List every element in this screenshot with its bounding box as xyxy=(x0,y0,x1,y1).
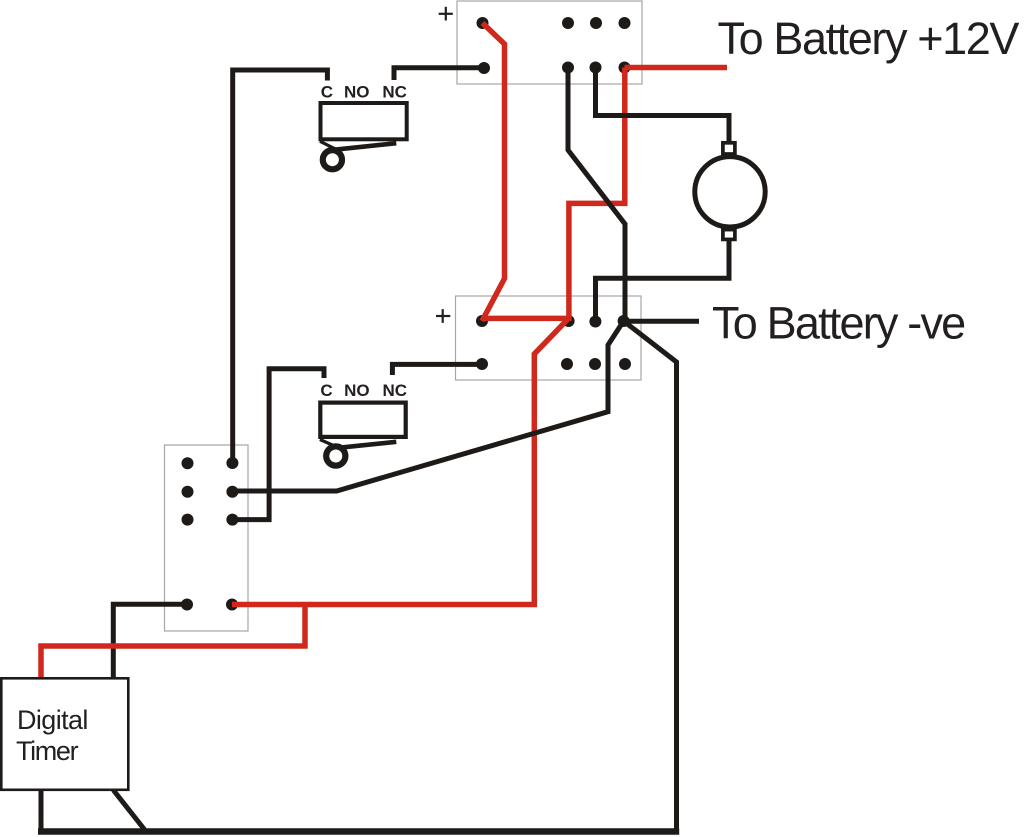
svg-text:Digital: Digital xyxy=(17,705,88,735)
wire black: timer bottom-left to bottom rail xyxy=(39,790,44,832)
wire black: bottom rail xyxy=(38,828,679,835)
wire black: connector pin 4 to digital timer xyxy=(113,604,187,678)
connector pin 7 xyxy=(226,514,238,526)
RL1 socket pin 5 (NC) xyxy=(478,62,490,74)
connector pin 8 (timer red) xyxy=(226,599,238,611)
relay RL2 pivot circle xyxy=(326,446,345,465)
RL1 socket pin 4 xyxy=(619,17,631,29)
wire black: relay1 C terminal to connector pin 5 xyxy=(233,70,328,463)
polarity + label block1 xyxy=(439,7,453,21)
svg-text:NO: NO xyxy=(344,381,370,400)
RL1 socket pin 3 xyxy=(590,17,602,29)
RL2 socket pin 5 (NC) xyxy=(476,358,488,370)
wire black: RL2 pin4 diagonal to connector pin 6 xyxy=(232,321,623,491)
RL2 socket pin 7 xyxy=(589,358,601,370)
relay RL1 coil box xyxy=(321,103,407,139)
wire black: RL2 pin4 down right side to bottom rail xyxy=(624,321,677,832)
wire red: RL2 pin2 down to timer connector pin 8 xyxy=(232,320,568,605)
svg-text:NC: NC xyxy=(382,82,407,101)
relay socket block RL1 outline xyxy=(457,1,642,84)
motor M1 top terminal xyxy=(723,143,735,154)
RL2 socket pin 3 xyxy=(589,316,601,328)
motor M1 bottom terminal xyxy=(723,230,735,240)
connector pin 1 xyxy=(182,457,194,469)
relay RL1 armature link xyxy=(320,141,336,149)
connector pin 4 (timer black) xyxy=(181,599,193,611)
connector pin 5 xyxy=(226,457,238,469)
wire black: motor - terminal to RL2 pin3 xyxy=(596,238,730,322)
svg-text:C: C xyxy=(321,82,333,101)
svg-text:C: C xyxy=(320,381,332,400)
relay RL2 armature link xyxy=(320,440,336,447)
wire black: RL2 pin4 to battery -ve xyxy=(624,319,699,324)
wire black: timer bottom diagonal to bottom rail xyxy=(113,790,146,832)
RL1 socket pin 7 xyxy=(590,62,602,74)
RL2 socket pin 8 xyxy=(619,358,631,370)
RL2 socket pin 1 (coil +) xyxy=(476,315,488,327)
polarity + label block2 xyxy=(436,309,450,323)
wire black: relay2 NC terminal to RL2 pin5 xyxy=(392,364,482,375)
svg-text:To Battery -ve: To Battery -ve xyxy=(712,298,965,349)
relay RL2 coil box xyxy=(320,403,405,437)
wire red: RL1 coil+ pin to down-left vertical then to RL2 pin1 xyxy=(482,23,505,321)
digital timer box xyxy=(1,678,128,790)
RL2 socket pin 6 xyxy=(561,358,573,370)
wire red: RL1 +12V pin down, jog left, down to RL2 pin2 xyxy=(569,68,625,322)
RL1 socket pin 2 xyxy=(562,17,574,29)
connector pin 3 xyxy=(182,514,194,526)
relay RL1 armature lever xyxy=(334,143,397,150)
wire black: RL1 pin2 cross-over down to RL2 pin4 xyxy=(568,68,625,321)
motor M1 body xyxy=(695,157,765,227)
relay RL1 pivot circle xyxy=(323,150,342,169)
connector pin 6 xyxy=(226,486,238,498)
timer connector block outline xyxy=(165,445,249,631)
wire red: RL2 pin1 to pin2 link xyxy=(482,316,569,322)
RL2 socket pin 2 xyxy=(563,315,575,327)
relay socket block RL2 outline xyxy=(456,296,642,380)
RL1 socket pin 8 (+12V node) xyxy=(619,62,631,74)
relay RL2 armature lever xyxy=(334,442,397,449)
wire black: relay2 C terminal to connector pin 7 xyxy=(232,369,324,520)
svg-text:NO: NO xyxy=(344,82,370,101)
wire black: RL1 pin3 to motor + terminal xyxy=(596,68,730,144)
wire red: branch to digital timer supply xyxy=(41,602,305,678)
RL1 socket pin 1 (coil +) xyxy=(477,17,489,29)
wire black: relay1 NC terminal to RL1 pin xyxy=(394,68,484,80)
svg-text:Timer: Timer xyxy=(16,736,79,766)
svg-text:NC: NC xyxy=(383,381,408,400)
wire red: RL1 pin to battery +12V xyxy=(625,65,728,71)
svg-text:To Battery +12V: To Battery +12V xyxy=(718,13,1020,64)
RL1 socket pin 6 xyxy=(562,62,574,74)
RL2 socket pin 4 (battery -ve node) xyxy=(618,315,630,327)
connector pin 2 xyxy=(182,486,194,498)
